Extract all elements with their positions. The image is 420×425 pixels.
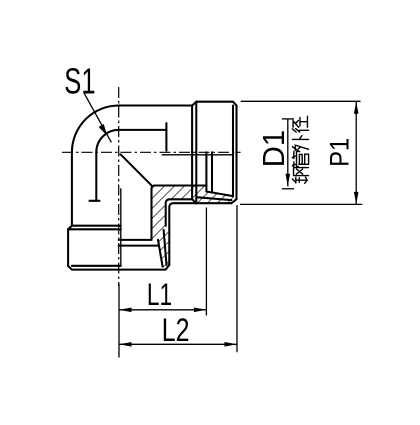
svg-text:L1: L1: [147, 277, 172, 313]
svg-text:L2: L2: [162, 313, 190, 349]
svg-text:S1: S1: [64, 61, 95, 101]
svg-text:D1: D1: [257, 130, 291, 167]
svg-text:P1: P1: [325, 138, 355, 167]
